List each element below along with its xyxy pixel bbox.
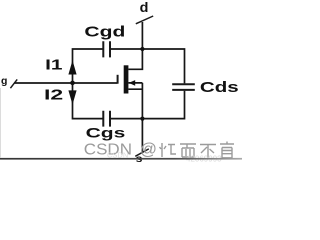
watermark char er bbox=[180, 144, 196, 157]
wire drain vertical with stub bbox=[128, 22, 142, 69]
watermark char mang bbox=[160, 143, 177, 157]
node dot source junction bbox=[140, 117, 144, 121]
node dot gate junction bbox=[70, 81, 75, 86]
node dot drain junction bbox=[140, 47, 144, 51]
svg-text:Cds: Cds bbox=[200, 80, 239, 96]
wire source stub and vertical to s bbox=[128, 83, 142, 153]
svg-text:g: g bbox=[1, 75, 7, 87]
left edge faint line bbox=[0, 88, 2, 158]
svg-text:Cgs: Cgs bbox=[86, 125, 126, 141]
svg-text:I1: I1 bbox=[45, 58, 62, 74]
current I2 arrow bbox=[68, 90, 76, 104]
transistor Q1 gate electrode bbox=[117, 75, 119, 84]
terminal g slash bbox=[10, 79, 17, 88]
svg-text:d: d bbox=[140, 0, 149, 15]
terminal d slash bbox=[136, 16, 153, 24]
transistor Q1 body arrow bbox=[129, 80, 136, 86]
wire top rail right + right branch down to Cds bbox=[111, 49, 185, 83]
capacitor Cds plates bbox=[172, 84, 195, 90]
watermark char mang2 bbox=[220, 142, 234, 158]
current I1 arrow bbox=[68, 60, 76, 74]
svg-text:Cgd: Cgd bbox=[84, 23, 125, 40]
watermark char bu bbox=[200, 145, 216, 158]
wire gate from g terminal bbox=[14, 82, 117, 84]
wire Cds bottom to bottom rail bbox=[111, 91, 185, 119]
capacitor Cgd plates bbox=[103, 41, 110, 57]
wire top rail left + left branch vertical + bottom rail left bbox=[73, 49, 103, 119]
transistor Q1 channel bar bbox=[124, 65, 129, 93]
svg-text:I2: I2 bbox=[44, 88, 63, 104]
terminal s slash bbox=[135, 149, 149, 156]
capacitor Cgs plates bbox=[103, 111, 110, 127]
divider line bottom bbox=[0, 158, 242, 160]
